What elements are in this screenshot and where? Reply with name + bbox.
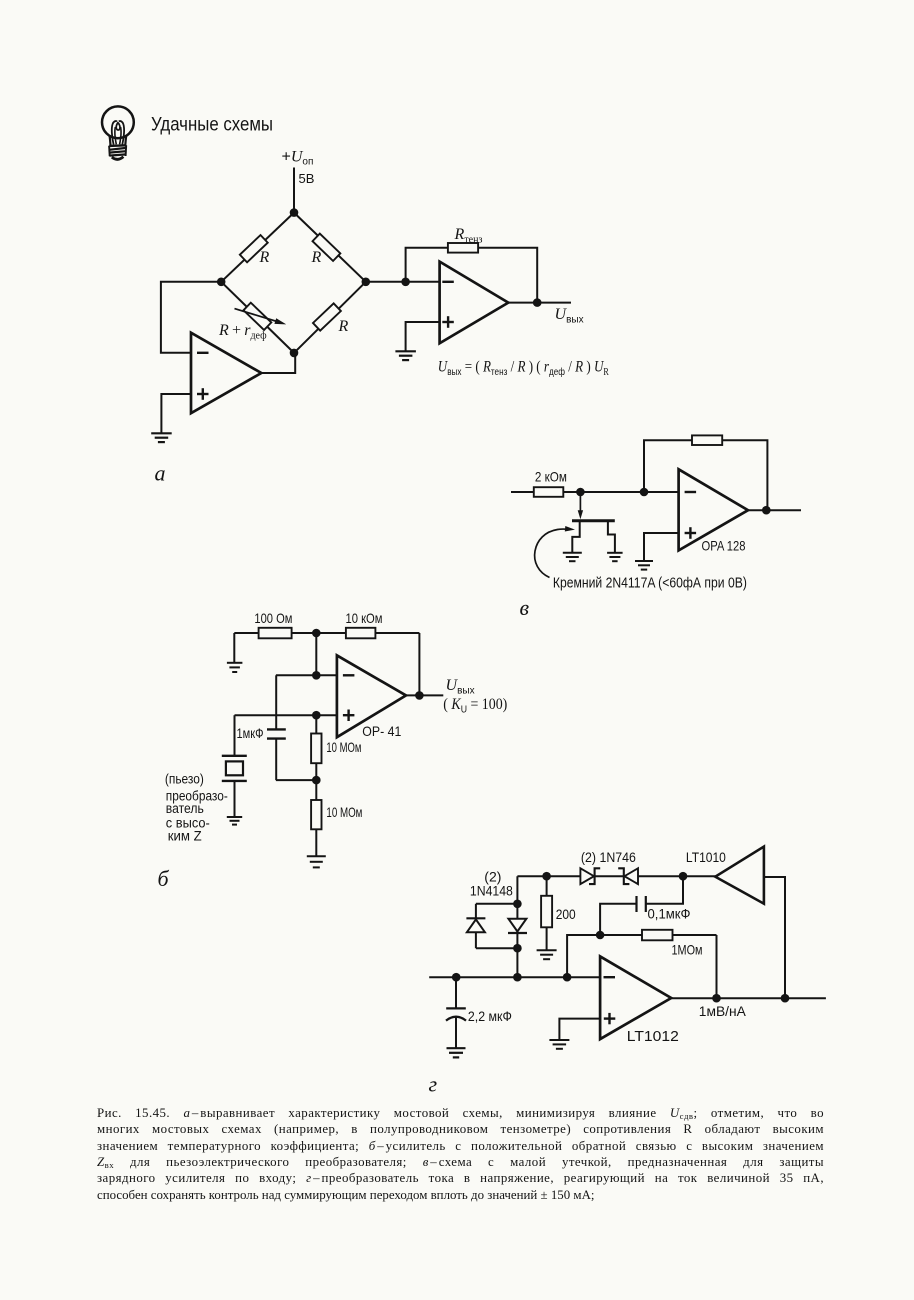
ground U3 xyxy=(635,560,653,562)
svg-text:1N4148: 1N4148 xyxy=(470,883,513,899)
svg-text:LT1010: LT1010 xyxy=(686,849,726,865)
node b plus xyxy=(312,711,321,720)
wire bridge top-right xyxy=(294,213,366,282)
node g out1 xyxy=(712,994,721,1003)
node 1N4148 upper xyxy=(513,900,522,909)
svg-text:R: R xyxy=(259,249,270,266)
node U3 output xyxy=(762,506,771,515)
wire b minus xyxy=(276,674,337,676)
resistor R upper-right xyxy=(313,234,341,261)
op-amp U2 xyxy=(440,262,509,344)
ground 2.2mkF xyxy=(447,1047,466,1049)
diode 1N4148 right (pointing down) xyxy=(508,919,526,932)
svg-text:+Uоп: +Uоп xyxy=(282,149,314,168)
op-amp U3 xyxy=(679,469,748,550)
svg-text:1МОм: 1МОм xyxy=(672,942,703,958)
node v1 xyxy=(576,488,585,497)
lightbulb icon xyxy=(102,106,134,159)
ground piezo xyxy=(227,816,242,818)
capacitor 2.2mkF xyxy=(446,1007,466,1009)
node 1N4148 lower xyxy=(513,944,522,953)
node right xyxy=(362,278,371,287)
wire buffer output xyxy=(764,877,785,998)
main input line g xyxy=(429,976,600,978)
svg-text:1мкФ: 1мкФ xyxy=(237,725,264,741)
capacitor 0.1mkF wires right xyxy=(646,876,683,904)
wire left node to U1 minus xyxy=(161,282,221,353)
ground 200 xyxy=(537,949,557,951)
wire bridge right to U2 minus xyxy=(366,281,440,283)
wire bridge top-left xyxy=(221,213,294,282)
svg-text:10 МОм: 10 МОм xyxy=(326,804,362,820)
top wire g xyxy=(517,875,580,877)
wire input v xyxy=(511,491,679,493)
wire U5 plus xyxy=(559,1019,600,1040)
node g out2 xyxy=(781,994,790,1003)
ground U5 xyxy=(549,1039,569,1041)
svg-text:ким Z: ким Z xyxy=(168,829,202,844)
ground JFET left xyxy=(563,552,582,554)
node v2 xyxy=(640,488,649,497)
JFET right leg xyxy=(608,521,615,553)
node U2 output xyxy=(533,298,542,307)
resistor 10MOm upper xyxy=(311,734,321,764)
op-amp U4 xyxy=(337,655,406,737)
svg-text:в: в xyxy=(520,595,530,620)
node left xyxy=(217,278,226,287)
svg-text:R: R xyxy=(311,249,322,266)
resistor 10 kOm xyxy=(346,628,376,639)
wire bridge bottom-left xyxy=(221,282,294,353)
node b mid xyxy=(312,776,321,785)
resistor 1MOm xyxy=(642,930,673,941)
svg-text:0,1мкФ: 0,1мкФ xyxy=(648,906,691,922)
svg-text:2 кОм: 2 кОм xyxy=(535,469,567,485)
capacitor 0.1mkF xyxy=(645,896,647,912)
diode 1N4148 left (pointing up) xyxy=(467,919,485,932)
wire b feedback riser xyxy=(418,633,420,695)
svg-text:LT1012: LT1012 xyxy=(627,1029,679,1045)
svg-text:5В: 5В xyxy=(299,171,315,186)
wire U2 plus xyxy=(406,322,440,351)
node b minus xyxy=(312,671,321,680)
svg-text:(2) 1N746: (2) 1N746 xyxy=(581,849,636,865)
resistor 200 wires xyxy=(546,876,548,950)
svg-text:Uвых: Uвых xyxy=(555,306,584,326)
resistor 2kOm xyxy=(534,487,564,497)
wire U1 output to bridge bottom xyxy=(261,353,295,373)
svg-text:Кремний 2N4117A (<60фА при 0В): Кремний 2N4117A (<60фА при 0В) xyxy=(553,576,747,592)
node g3 xyxy=(563,973,572,982)
ground JFET right xyxy=(607,552,623,554)
svg-text:10 кОм: 10 кОм xyxy=(346,610,383,626)
zener 1N746 first xyxy=(580,868,594,884)
node top xyxy=(290,208,299,217)
wire b node down xyxy=(315,633,317,675)
wire minus net g xyxy=(567,935,600,977)
resistor 100 Om xyxy=(259,628,292,639)
svg-text:( KU = 100): ( KU = 100) xyxy=(443,696,507,716)
resistor Rtenz xyxy=(448,243,478,253)
wire piezo upper xyxy=(234,715,236,756)
node g4 xyxy=(596,931,605,940)
wire b plus xyxy=(235,714,337,716)
wire 1MOm riser xyxy=(716,935,718,998)
svg-text:R: R xyxy=(338,318,349,335)
svg-text:ватель: ватель xyxy=(166,801,204,816)
arrow through variable resistor xyxy=(235,309,278,322)
wire bridge bottom-right xyxy=(294,282,366,353)
svg-text:2,2 мкФ: 2,2 мкФ xyxy=(468,1008,512,1024)
svg-text:а: а xyxy=(155,460,166,485)
resistor 200 xyxy=(541,896,552,928)
wire b output xyxy=(406,694,443,696)
wire U3 plus xyxy=(644,533,679,561)
resistor R upper-left xyxy=(240,235,268,262)
JFET left leg xyxy=(572,521,579,553)
resistor 10MOm lower xyxy=(311,800,321,829)
annotation arrow curved xyxy=(535,529,567,577)
wire v feedback xyxy=(644,440,767,510)
gate arrow wire xyxy=(579,492,581,513)
node b top xyxy=(312,629,321,638)
diode 1N4148 left branch wires xyxy=(476,903,518,905)
op-amp U1 xyxy=(191,333,261,414)
buffer LT1010 (points left) xyxy=(715,847,764,904)
wire 1N4148 riser xyxy=(516,876,518,977)
capacitor 2.2mkF wire lower xyxy=(455,1017,457,1048)
wire cap branch upper xyxy=(275,675,277,729)
wire piezo lower xyxy=(234,781,236,817)
output line g xyxy=(671,997,826,999)
node 200 xyxy=(542,872,551,881)
wire U2 feedback loop xyxy=(406,248,538,303)
resistor feedback v xyxy=(692,435,722,445)
svg-text:г: г xyxy=(429,1072,438,1097)
wire 1MOm xyxy=(600,934,716,936)
resistor R lower-right xyxy=(313,303,341,330)
svg-text:Uвых = ( Rтенз / R ) ( rдеф /: Uвых = ( Rтенз / R ) ( rдеф / R ) UR xyxy=(438,359,609,379)
svg-text:Uвых: Uвых xyxy=(446,677,475,697)
capacitor 1mkF xyxy=(267,728,286,730)
zener 1N746 second xyxy=(624,868,638,884)
wire cap branch lower xyxy=(275,739,277,781)
capacitor 2.2mkF wire upper xyxy=(455,977,457,1008)
wire b left down xyxy=(233,633,235,662)
resistor R+rdef variable xyxy=(243,303,271,330)
wire U1 plus xyxy=(161,394,191,433)
svg-text:1мВ/нА: 1мВ/нА xyxy=(699,1003,747,1019)
wire U2 output xyxy=(508,302,571,304)
node g1 xyxy=(452,973,461,982)
svg-text:OP- 41: OP- 41 xyxy=(362,723,401,739)
wire +Uop xyxy=(293,168,295,213)
svg-text:100 Ом: 100 Ом xyxy=(254,610,292,626)
svg-text:Удачные схемы: Удачные схемы xyxy=(151,113,273,135)
node bottom xyxy=(290,349,299,358)
svg-text:10 МОм: 10 МОм xyxy=(326,739,361,755)
node b output xyxy=(415,691,424,700)
svg-text:б: б xyxy=(158,866,170,891)
ground b left xyxy=(227,662,243,664)
ground b bottom xyxy=(307,855,326,857)
ground U1 xyxy=(151,432,172,434)
node g2 xyxy=(513,973,522,982)
op-amp U5 LT1012 xyxy=(600,956,671,1039)
node buffer input xyxy=(679,872,688,881)
wire U3 output xyxy=(748,509,801,511)
wire 10MOm lower xyxy=(315,780,317,856)
svg-text:OPA 128: OPA 128 xyxy=(702,538,746,554)
svg-text:(пьезо): (пьезо) xyxy=(165,772,204,787)
wire top b xyxy=(234,632,419,634)
ground U2 xyxy=(395,350,416,352)
capacitor 0.1mkF wire left xyxy=(600,904,636,935)
wire b cap to node xyxy=(276,779,316,781)
svg-text:200: 200 xyxy=(556,906,576,922)
node U2 minus junction xyxy=(401,278,410,287)
JFET 2N4117A bar xyxy=(572,519,615,522)
wire 10MOm upper xyxy=(315,715,317,780)
svg-text:Rтенз: Rтенз xyxy=(454,226,483,246)
piezo transducer xyxy=(222,755,247,757)
